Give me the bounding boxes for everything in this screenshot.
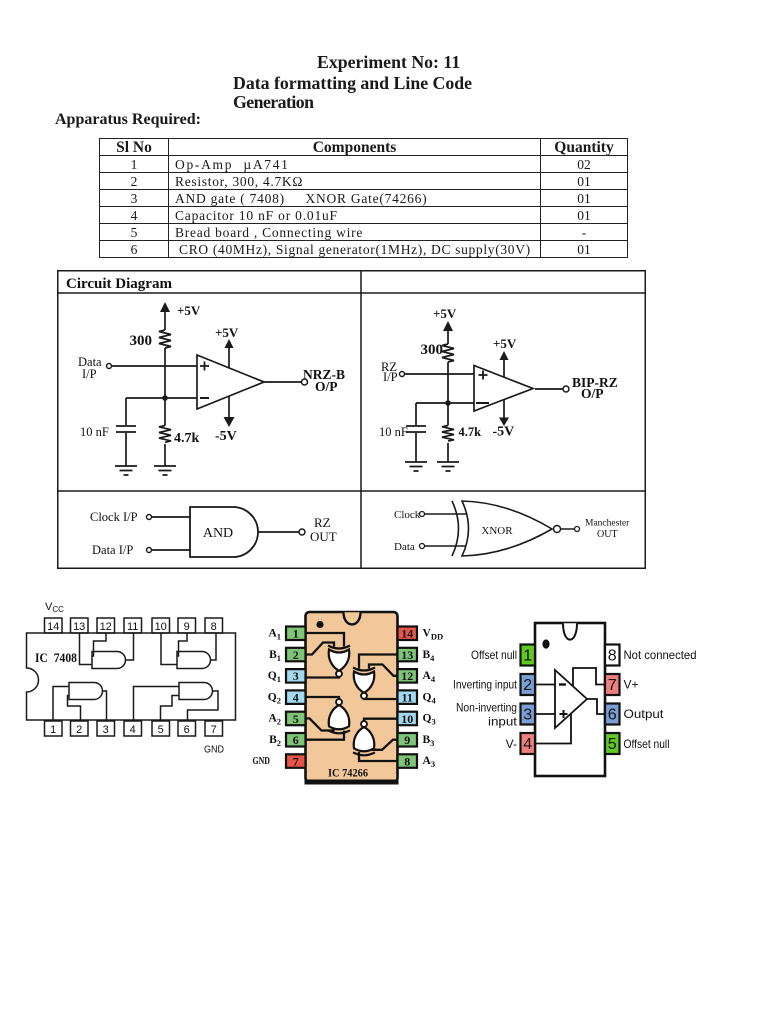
svg-text:2: 2 xyxy=(293,648,299,662)
terminal NRZ output xyxy=(302,379,308,385)
svg-text:Clock I/P: Clock I/P xyxy=(90,510,138,524)
svg-text:10 nF: 10 nF xyxy=(379,425,408,439)
IC 7408 pinout figure xyxy=(20,596,250,760)
svg-text:13: 13 xyxy=(73,621,85,633)
pin 7 box red xyxy=(605,674,620,695)
terminal clock XNOR xyxy=(420,512,425,517)
svg-text:Circuit Diagram: Circuit Diagram xyxy=(66,276,172,292)
svg-text:RZ: RZ xyxy=(314,515,331,530)
XNOR gate U4 body xyxy=(462,501,552,556)
svg-text:B3: B3 xyxy=(423,734,435,748)
gate D output wire pin6 xyxy=(188,691,219,720)
pin 10 box blue xyxy=(398,712,418,726)
op-amp U1 plus input xyxy=(200,362,209,371)
terminal data input AND xyxy=(147,548,152,553)
pin 1 box green xyxy=(521,645,536,666)
arrowhead +5V op-amp C1 xyxy=(225,339,234,348)
svg-text:9: 9 xyxy=(184,621,190,633)
IC74266 pin1 dot xyxy=(316,621,323,628)
pin 12 box xyxy=(97,618,115,633)
svg-text:-5V: -5V xyxy=(215,429,237,444)
gate A input wire pin12 xyxy=(92,633,106,656)
supply +5V wire C1 xyxy=(164,312,166,330)
resistor R1 300 xyxy=(159,330,171,348)
svg-text:Q2: Q2 xyxy=(268,691,281,705)
resistor R3 300 xyxy=(442,344,454,362)
IC 74266 pinout figure xyxy=(250,605,455,805)
arrowhead +5V supply C1 xyxy=(160,302,170,312)
wire pin6 output xyxy=(587,699,605,714)
svg-text:7: 7 xyxy=(211,724,217,736)
capacitor C1 10nF lead xyxy=(125,398,127,425)
op-amp U2 -5V arrow wire xyxy=(503,400,505,418)
wire pin5 to gate3 xyxy=(306,718,334,730)
capacitor C1 plates xyxy=(116,426,136,432)
pin 2 box green xyxy=(286,648,306,662)
svg-text:GND: GND xyxy=(204,744,224,756)
ground G3 xyxy=(405,462,427,471)
svg-text:9: 9 xyxy=(404,733,410,747)
arrowhead +5V supply C2 xyxy=(443,321,453,331)
IC 741 pinout figure xyxy=(450,615,720,790)
svg-text:OUT: OUT xyxy=(597,529,618,540)
svg-text:A2: A2 xyxy=(268,713,281,727)
wire pin1 to gate1 xyxy=(306,633,345,647)
ground G2 xyxy=(154,466,176,475)
gate B input wire pin9 xyxy=(177,633,187,656)
IC74266 top notch xyxy=(344,612,361,624)
svg-text:5: 5 xyxy=(608,736,617,753)
svg-text:3: 3 xyxy=(523,707,532,724)
junction node C2 xyxy=(445,400,451,406)
svg-text:4.7k: 4.7k xyxy=(459,425,482,439)
wire gate1 to pin3 xyxy=(306,677,340,678)
svg-text:VCC: VCC xyxy=(45,601,64,614)
gate A input wire pin13 xyxy=(80,633,93,665)
wire AND output xyxy=(258,531,299,533)
svg-text:2: 2 xyxy=(523,677,532,694)
AND gate U3 xyxy=(190,507,258,557)
svg-text:4: 4 xyxy=(293,691,299,705)
svg-text:IC 74266: IC 74266 xyxy=(328,766,368,780)
wire clock input xyxy=(152,516,191,518)
pin 1 box green xyxy=(286,627,306,641)
wire pin13 to gate2 xyxy=(359,655,398,669)
svg-text:+5V: +5V xyxy=(177,303,201,318)
wire R2 to ground xyxy=(164,444,166,466)
wire data input xyxy=(112,365,198,367)
capacitor C1 lower lead xyxy=(125,433,127,466)
wire R1 to node xyxy=(164,348,166,398)
IC body xyxy=(27,633,236,720)
capacitor C2 lower lead xyxy=(415,433,417,462)
wire pin3 to non-inverting xyxy=(535,713,555,715)
svg-text:1: 1 xyxy=(293,627,299,641)
title line 1 xyxy=(317,52,460,73)
XNOR gate4 body xyxy=(354,727,375,751)
svg-text:6: 6 xyxy=(184,724,190,736)
components table xyxy=(99,138,628,258)
XNOR gate2 body xyxy=(354,672,375,693)
pin 6 box blue xyxy=(605,704,620,725)
wire data input AND xyxy=(152,549,191,551)
svg-text:12: 12 xyxy=(100,621,112,633)
op-amp triangle xyxy=(555,670,587,728)
terminal data input xyxy=(107,364,112,369)
XNOR gate2 bubble xyxy=(361,693,367,699)
op-amp plus sign xyxy=(560,710,568,718)
svg-text:10: 10 xyxy=(155,621,167,633)
wire gate4 to pin10 xyxy=(364,719,398,721)
op-amp U2 minus input xyxy=(476,402,489,404)
ground G1 xyxy=(115,466,137,475)
wire node to R2 xyxy=(164,398,166,426)
svg-text:10: 10 xyxy=(401,712,413,726)
svg-text:8: 8 xyxy=(211,621,217,633)
wire clock input XNOR xyxy=(425,513,467,515)
pin 10 box xyxy=(152,618,170,633)
op-amp U2 +5V arrow wire xyxy=(503,360,505,377)
svg-text:Inverting input: Inverting input xyxy=(453,678,518,692)
pin 1 box xyxy=(45,721,63,736)
arrowhead -5V op-amp C1 xyxy=(224,417,235,427)
svg-text:OUT: OUT xyxy=(310,529,337,544)
pin 8 box green xyxy=(398,754,418,768)
pin 5 box green xyxy=(286,712,306,726)
svg-text:+5V: +5V xyxy=(433,306,457,321)
gate C input wire pin2 xyxy=(68,696,81,721)
pin 14 box xyxy=(45,618,63,633)
svg-text:11: 11 xyxy=(402,691,413,705)
svg-text:300: 300 xyxy=(421,342,444,358)
wire R3 to node xyxy=(447,362,449,403)
svg-text:Clock: Clock xyxy=(394,509,421,521)
pin 7 box xyxy=(205,721,223,736)
svg-text:A4: A4 xyxy=(423,670,436,684)
wire gate2 to pin11 xyxy=(364,697,398,700)
XNOR gate U4 back arc xyxy=(452,501,459,556)
gate C input wire pin1 xyxy=(53,687,69,721)
XNOR bubble xyxy=(554,526,561,533)
pin 11 box blue xyxy=(398,690,418,704)
svg-text:B4: B4 xyxy=(423,649,436,663)
svg-text:7: 7 xyxy=(293,754,299,768)
svg-text:6: 6 xyxy=(293,733,299,747)
svg-text:VDD: VDD xyxy=(423,628,444,642)
svg-text:8: 8 xyxy=(608,648,617,665)
svg-text:5: 5 xyxy=(158,724,164,736)
pin 8 box white xyxy=(605,645,620,666)
XNOR gate3 bubble xyxy=(336,699,342,705)
svg-text:1: 1 xyxy=(50,724,56,736)
svg-text:2: 2 xyxy=(76,724,82,736)
gate B body xyxy=(177,652,211,669)
svg-text:4: 4 xyxy=(523,736,532,753)
svg-text:Data I/P: Data I/P xyxy=(92,543,133,557)
svg-text:I/P: I/P xyxy=(82,367,97,381)
svg-text:O/P: O/P xyxy=(581,386,604,401)
op-amp U1 -5V arrow wire xyxy=(228,396,230,418)
circuit diagram panel xyxy=(57,270,646,570)
wire pin2 to inverting xyxy=(535,684,555,686)
svg-text:B1: B1 xyxy=(269,649,281,663)
op-amp U2 plus input xyxy=(479,371,488,380)
svg-text:V+: V+ xyxy=(624,678,639,692)
terminal RZ out xyxy=(299,529,305,535)
svg-text:7: 7 xyxy=(608,677,617,694)
svg-text:1: 1 xyxy=(523,648,532,665)
XNOR gate4 bubble xyxy=(361,721,367,727)
terminal clock input xyxy=(147,515,152,520)
wire inverting node xyxy=(126,397,197,399)
XNOR gate1 bubble xyxy=(336,671,342,677)
svg-text:Data: Data xyxy=(394,541,415,553)
gate D body xyxy=(179,683,213,700)
pin 4 box red xyxy=(521,733,536,754)
panel border xyxy=(58,271,646,569)
op-amp U1 minus input xyxy=(200,397,209,399)
svg-text:A1: A1 xyxy=(268,628,281,642)
gate A output wire pin11 xyxy=(126,633,134,660)
svg-text:Q1: Q1 xyxy=(268,670,281,684)
svg-text:V-: V- xyxy=(506,737,517,751)
wire inverting node C2 xyxy=(416,402,474,404)
pin 7 box red xyxy=(286,754,306,768)
svg-text:input: input xyxy=(488,715,518,729)
svg-text:AND: AND xyxy=(203,526,233,541)
svg-text:3: 3 xyxy=(103,724,109,736)
ground G4 xyxy=(437,462,459,471)
svg-text:Q3: Q3 xyxy=(423,713,436,727)
pin 9 box xyxy=(178,618,196,633)
svg-text:GND: GND xyxy=(253,756,271,767)
svg-text:XNOR: XNOR xyxy=(481,525,513,537)
arrowhead -5V op-amp C2 xyxy=(499,418,509,427)
svg-text:Offset null: Offset null xyxy=(624,737,670,751)
terminal data XNOR xyxy=(420,544,425,549)
gate C body xyxy=(69,683,103,700)
op-amp U1 xyxy=(197,355,264,409)
pin 4 box xyxy=(124,721,142,736)
pin 4 box blue xyxy=(286,690,306,704)
arrowhead +5V op-amp C2 xyxy=(500,351,509,360)
svg-text:Output: Output xyxy=(624,707,665,721)
svg-text:IC 7408: IC 7408 xyxy=(35,651,77,665)
op-amp minus sign xyxy=(559,683,566,685)
wire pin4 V- xyxy=(535,714,571,744)
gate B input wire pin10 xyxy=(161,633,177,665)
wire RZ input xyxy=(405,373,475,375)
svg-text:I/P: I/P xyxy=(383,370,398,384)
op-amp U2 xyxy=(474,366,533,412)
wire pin8 to gate4 xyxy=(359,752,398,761)
XNOR gate3 input arc xyxy=(328,730,350,733)
svg-text:14: 14 xyxy=(47,621,59,633)
svg-text:O/P: O/P xyxy=(315,379,338,394)
wire R4 to ground xyxy=(447,443,449,462)
IC741 top notch xyxy=(563,623,577,639)
svg-text:-5V: -5V xyxy=(493,425,515,440)
IC74266 body bottom bar xyxy=(305,780,399,785)
wire gate3 to pin4 xyxy=(306,697,340,699)
svg-text:14: 14 xyxy=(401,627,413,641)
wire node to R4 xyxy=(447,403,449,426)
svg-text:5: 5 xyxy=(293,712,299,726)
IC74266 body xyxy=(306,612,398,782)
XNOR gate4 input arc xyxy=(353,752,375,755)
svg-text:A3: A3 xyxy=(423,755,436,769)
pin 11 box xyxy=(124,618,142,633)
svg-text:300: 300 xyxy=(130,333,153,349)
pin 3 box xyxy=(97,721,115,736)
pin 12 box green xyxy=(398,669,418,683)
pin 5 box green xyxy=(605,733,620,754)
terminal BIP-RZ output xyxy=(563,386,569,392)
svg-text:11: 11 xyxy=(127,621,138,633)
terminal manchester out xyxy=(575,527,580,532)
pin 8 box xyxy=(205,618,223,633)
wire output C2 xyxy=(535,388,563,390)
svg-text:B2: B2 xyxy=(269,734,281,748)
IC741 pin1 dot xyxy=(542,639,549,648)
svg-text:4: 4 xyxy=(130,724,136,736)
title line 3 xyxy=(233,92,313,113)
wire pin6 to gate3 xyxy=(306,731,345,740)
pin 2 box xyxy=(71,721,89,736)
resistor R2 4.7k xyxy=(159,426,171,443)
svg-text:12: 12 xyxy=(401,669,413,683)
gate D input wire pin5 xyxy=(161,696,180,721)
svg-text:+5V: +5V xyxy=(215,325,239,340)
wire pin7 V+ xyxy=(573,668,605,686)
svg-text:Q4: Q4 xyxy=(423,691,437,705)
resistor R4 4.7k xyxy=(442,426,454,442)
header divider xyxy=(57,292,646,294)
pin 5 box xyxy=(152,721,170,736)
XNOR gate3 body xyxy=(329,705,350,729)
XNOR gate1 body xyxy=(329,650,350,671)
pin 3 box blue xyxy=(286,669,306,683)
svg-text:+5V: +5V xyxy=(493,336,517,351)
IC741 body xyxy=(535,623,605,776)
heading apparatus required xyxy=(55,111,201,129)
vertical divider xyxy=(360,270,362,569)
XNOR gate1 input arc xyxy=(328,646,350,649)
wire data input XNOR xyxy=(425,545,467,547)
svg-text:Manchester: Manchester xyxy=(585,519,630,529)
pin 13 box green xyxy=(398,648,418,662)
wire pin2 to gate1 xyxy=(306,643,335,655)
svg-text:Not connected: Not connected xyxy=(624,648,697,662)
pin 9 box green xyxy=(398,733,418,747)
XNOR gate2 input arc xyxy=(353,668,375,671)
capacitor C2 10nF lead xyxy=(415,403,417,425)
gate D input wire pin4 xyxy=(134,687,180,721)
wire pin12 to gate2 xyxy=(369,665,398,676)
svg-text:6: 6 xyxy=(608,707,617,724)
pin 6 box xyxy=(178,721,196,736)
wire pin9 to gate4 xyxy=(369,740,399,750)
gate A body xyxy=(92,652,126,669)
svg-text:4.7k: 4.7k xyxy=(174,431,200,446)
svg-text:10 nF: 10 nF xyxy=(80,425,109,439)
pin 3 box blue xyxy=(521,704,536,725)
horizontal divider xyxy=(57,490,646,492)
pin 14 box red xyxy=(398,627,418,641)
svg-text:8: 8 xyxy=(404,754,410,768)
wire output xyxy=(264,381,301,383)
gate C output wire pin3 xyxy=(103,691,107,720)
svg-text:13: 13 xyxy=(401,648,413,662)
pin 2 box blue xyxy=(521,674,536,695)
capacitor C2 plates xyxy=(406,426,426,432)
svg-text:Non-inverting: Non-inverting xyxy=(456,701,517,715)
svg-text:3: 3 xyxy=(293,669,299,683)
op-amp U1 +5V arrow wire xyxy=(228,348,230,368)
pin 6 box green xyxy=(286,733,306,747)
supply +5V wire C2 xyxy=(447,331,449,344)
wire XNOR output xyxy=(561,528,575,530)
pin 13 box xyxy=(71,618,89,633)
junction node C1 xyxy=(162,395,168,401)
gate B output wire pin8 xyxy=(211,633,217,660)
svg-text:Offset null: Offset null xyxy=(471,648,517,662)
title line 2 xyxy=(233,73,472,94)
terminal RZ input xyxy=(400,372,405,377)
